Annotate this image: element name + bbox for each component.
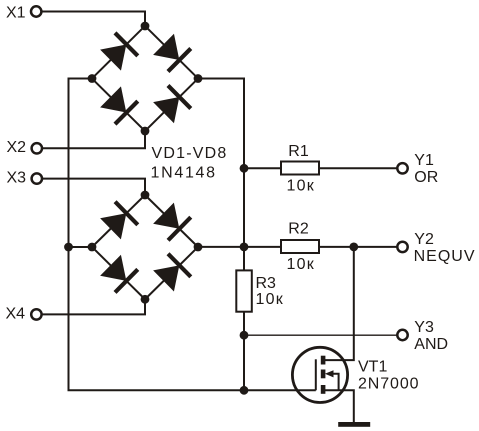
terminal X4 — [31, 309, 41, 319]
node R1 tap — [240, 164, 249, 173]
diode VD1 (bridge1 left-top) — [81, 14, 157, 90]
svg-text:1N4148: 1N4148 — [151, 165, 217, 182]
diode VD4 (bridge1 bottom-right) — [134, 67, 210, 143]
wire AND bus: bridge1 left node down and along bottom to gate — [69, 79, 316, 391]
transistor VT1 gate bar — [315, 359, 317, 390]
svg-text:10к: 10к — [256, 291, 284, 308]
transistor VT1 body channel bar — [321, 370, 326, 379]
svg-text:VT1: VT1 — [358, 359, 387, 376]
svg-text:10к: 10к — [287, 256, 315, 273]
svg-text:VD1-VD8: VD1-VD8 — [152, 145, 228, 162]
node bridge1 right — [194, 74, 203, 83]
svg-text:Y1: Y1 — [414, 152, 434, 169]
wire bus to R1 — [244, 167, 282, 169]
svg-text:10к: 10к — [287, 178, 315, 195]
node Y2 / drain — [349, 243, 358, 252]
svg-text:X4: X4 — [6, 306, 26, 323]
node Y3 tap — [240, 331, 249, 340]
wire VT1 source to ground — [325, 390, 354, 423]
wire X2 to bridge1 bottom — [43, 131, 145, 148]
svg-text:Y2: Y2 — [414, 231, 434, 248]
resistor R1 — [281, 162, 319, 175]
wire OR bus: bridge1 right node right and down to R3 top — [198, 79, 244, 271]
wire drain bus from Y2 node down to VT1 drain — [325, 247, 354, 360]
transistor VT1 body circle — [292, 347, 347, 402]
node gate junction — [240, 386, 249, 395]
svg-text:R3: R3 — [256, 275, 277, 292]
node bridge1 bottom (X2) — [141, 127, 150, 136]
wire X3 to bridge2 top — [43, 179, 145, 195]
wire R2 to Y2 — [318, 246, 397, 248]
node bridge1 left — [88, 74, 97, 83]
svg-text:2N7000: 2N7000 — [358, 375, 419, 392]
resistor R3 — [236, 270, 252, 311]
node R2 / OR-bus — [240, 243, 249, 252]
svg-text:X3: X3 — [7, 169, 27, 186]
wire bridge2 left node to AND bus — [69, 246, 93, 248]
node bridge2 bottom (X4) — [141, 295, 150, 304]
wire X1 to bridge top — [42, 12, 145, 27]
svg-text:AND: AND — [414, 336, 448, 353]
node bridge1 top (X1) — [141, 22, 150, 31]
diode VD2 (bridge1 top-right) — [134, 14, 210, 90]
transistor VT1 source channel bar — [321, 385, 326, 394]
transistor VT1 drain channel bar — [321, 356, 326, 365]
diode VD8 (bridge2 bottom-right) — [134, 235, 210, 310]
svg-text:OR: OR — [414, 169, 438, 186]
wire bridge2 right node to R2 — [198, 246, 282, 248]
diode VD7 (bridge2 left-bottom) — [81, 235, 157, 310]
svg-text:NEQUV: NEQUV — [414, 248, 476, 265]
svg-text:X1: X1 — [6, 5, 26, 22]
node bridge2 top (X3) — [141, 191, 150, 200]
node bridge2 left — [88, 243, 97, 252]
svg-text:R2: R2 — [288, 221, 309, 238]
terminal Y3 — [397, 330, 407, 340]
node bridge2 right — [194, 243, 203, 252]
terminal X3 — [32, 173, 42, 183]
node AND-bus / bridge2 left tap — [64, 243, 73, 252]
wire X4 to bridge2 bottom — [43, 299, 146, 314]
diode VD6 (bridge2 top-right) — [134, 183, 210, 258]
terminal X1 — [31, 6, 41, 16]
wire OR bus below R3 down to gate junction — [243, 312, 245, 391]
resistor R2 — [281, 240, 319, 253]
wire node to Y3 — [244, 334, 397, 336]
terminal Y1 — [397, 163, 407, 173]
diode VD5 (bridge2 left-top) — [81, 183, 157, 258]
transistor VT1 substrate arrow — [325, 370, 339, 390]
svg-text:X2: X2 — [7, 139, 27, 156]
wire R1 to Y1 — [318, 167, 397, 169]
ground — [338, 422, 370, 427]
svg-text:Y3: Y3 — [414, 319, 434, 336]
svg-text:R1: R1 — [288, 143, 309, 160]
terminal X2 — [32, 143, 42, 153]
terminal Y2 — [397, 242, 407, 252]
diode VD3 (bridge1 left-bottom) — [81, 67, 157, 143]
